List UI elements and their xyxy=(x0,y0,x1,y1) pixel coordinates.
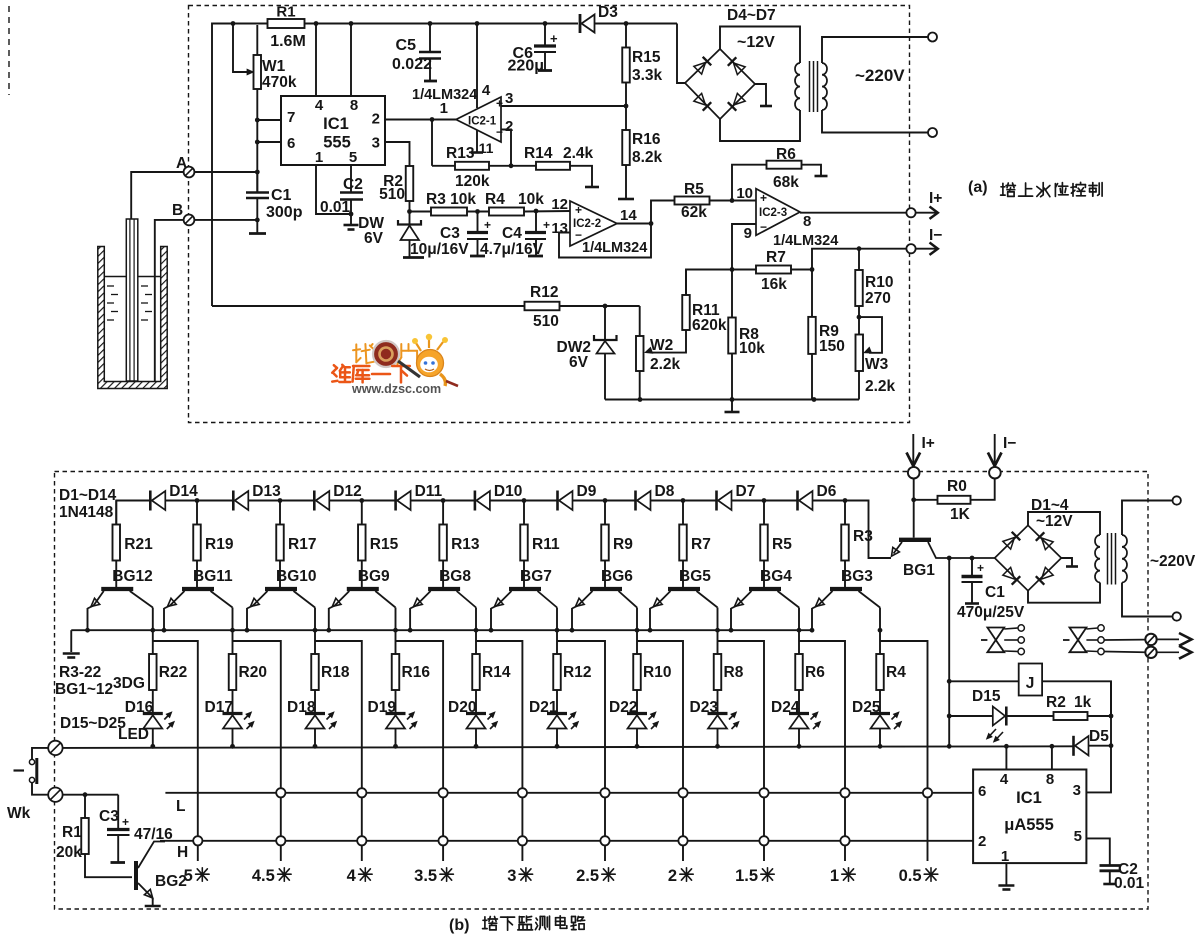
capacitor C5 0.022 xyxy=(392,24,441,82)
wire chain segment xyxy=(165,498,233,503)
svg-text:2.2k: 2.2k xyxy=(865,378,896,395)
resistor R13 xyxy=(439,501,480,588)
svg-text:5: 5 xyxy=(184,867,193,885)
resistor R21 xyxy=(113,501,154,588)
svg-text:10: 10 xyxy=(736,185,753,202)
svg-text:0.01: 0.01 xyxy=(1114,875,1145,892)
wire collector column BG7 xyxy=(555,628,560,654)
LED D23 xyxy=(690,699,740,746)
wire IC1b pin5 to C2 xyxy=(1086,838,1109,865)
resistor R2 1k (b) xyxy=(1006,694,1113,720)
svg-text:D17: D17 xyxy=(205,699,233,716)
svg-text:1.5: 1.5 xyxy=(735,867,758,885)
wire IC2-2 feedback loop xyxy=(559,224,651,258)
diode D9 xyxy=(558,483,597,511)
label (b) caption xyxy=(449,916,585,934)
svg-text:220μ: 220μ xyxy=(508,58,544,75)
LED D15 indicator xyxy=(947,688,1007,742)
ground at bottom rail (a) xyxy=(725,400,740,413)
svg-text:7: 7 xyxy=(287,109,295,126)
svg-text:H: H xyxy=(177,844,188,861)
resistor R3 10k (a) xyxy=(410,191,490,216)
transistor BG2 xyxy=(136,842,187,907)
op-amp IC2-2 xyxy=(551,196,647,256)
wire collector column BG5 xyxy=(715,628,720,654)
svg-text:8: 8 xyxy=(803,213,811,230)
LED D19 xyxy=(368,699,418,746)
resistor R0 1K xyxy=(911,478,994,523)
svg-text:3DG: 3DG xyxy=(113,675,145,692)
svg-text:R5: R5 xyxy=(772,536,792,553)
wire collector column BG6 xyxy=(635,628,640,654)
wire LED common line xyxy=(63,746,1074,748)
svg-text:R15: R15 xyxy=(632,49,661,66)
svg-text:4.5: 4.5 xyxy=(252,867,275,885)
node I- output terminal xyxy=(906,227,942,255)
svg-text:BG3: BG3 xyxy=(841,568,873,585)
wire probe branch BG5 xyxy=(718,641,765,861)
wire emitter to rail BG8 xyxy=(408,628,413,633)
wire chain segment xyxy=(411,498,475,503)
wire IC1b pin4 xyxy=(1005,746,1007,769)
svg-text:2: 2 xyxy=(668,867,677,885)
wire IC1 pin3 to R2 xyxy=(385,142,410,166)
transformer T2 (b) xyxy=(1095,501,1173,617)
wire emitter to rail BG9 xyxy=(326,628,331,633)
node H connector 1.5米 xyxy=(759,836,768,845)
svg-text:1N4148: 1N4148 xyxy=(59,504,114,521)
svg-text:~220V: ~220V xyxy=(1150,553,1196,570)
wire emitter to rail BG5 xyxy=(648,628,653,633)
resistor R14 2.4k xyxy=(511,145,599,187)
wire chain segment xyxy=(651,498,717,503)
capacitor C3 10u/16V (a) xyxy=(410,209,491,258)
svg-text:BG6: BG6 xyxy=(601,568,633,585)
svg-text:BG7: BG7 xyxy=(520,568,552,585)
bridge rectifier D1~4 (b) xyxy=(995,525,1062,590)
svg-text:R15: R15 xyxy=(370,536,399,553)
svg-text:270: 270 xyxy=(865,290,891,307)
diode D8 xyxy=(636,483,675,511)
svg-text:LED: LED xyxy=(118,726,149,743)
wire IC1 pin6 xyxy=(255,140,281,145)
LED D16 xyxy=(125,699,175,746)
wire collector column BG12 xyxy=(150,628,155,654)
svg-text:3: 3 xyxy=(372,135,380,152)
node H connector 5米 xyxy=(193,836,202,845)
wire emitter to rail BG7 xyxy=(489,628,494,633)
svg-text:0.022: 0.022 xyxy=(392,56,432,73)
wire collector column BG3 xyxy=(878,628,883,654)
op-amp IC2-1 xyxy=(440,82,514,156)
svg-text:+: + xyxy=(543,218,550,232)
svg-text:~12V: ~12V xyxy=(737,34,775,51)
wire IC2-1 output to R13 xyxy=(431,120,433,166)
relay J xyxy=(947,664,1111,717)
svg-text:1.6M: 1.6M xyxy=(270,33,306,50)
transistor BG1 xyxy=(892,478,995,579)
wire IC1 pin4 to rail xyxy=(315,24,317,97)
resistor R1 xyxy=(268,4,306,51)
svg-text:3: 3 xyxy=(507,867,516,885)
svg-text:62k: 62k xyxy=(681,204,707,221)
wire emitter to rail BG6 xyxy=(570,628,575,633)
capacitor C1 300p xyxy=(246,172,303,234)
transistor BG10 xyxy=(247,568,317,630)
svg-text:4: 4 xyxy=(347,867,357,885)
transistor BG7 xyxy=(491,568,557,630)
wire probe branch BG11 xyxy=(233,641,281,861)
svg-text:BG4: BG4 xyxy=(760,568,792,585)
wire emitter to rail BG4 xyxy=(729,628,734,633)
svg-text:BG1~12: BG1~12 xyxy=(55,681,113,698)
svg-text:+: + xyxy=(977,561,984,575)
label 3米 depth xyxy=(507,867,532,885)
svg-text:4: 4 xyxy=(315,97,324,114)
label 4.5米 depth xyxy=(252,867,291,885)
svg-text:4: 4 xyxy=(1000,771,1009,788)
svg-text:R1: R1 xyxy=(62,824,82,841)
node I- input arrow xyxy=(988,434,1016,479)
svg-text:4.7μ/16V: 4.7μ/16V xyxy=(480,241,544,258)
resistor R6 68k feedback xyxy=(732,146,828,201)
LED D22 xyxy=(609,699,659,746)
svg-text:(a): (a) xyxy=(968,179,988,196)
LED D20 xyxy=(448,699,498,746)
label 0.5米 depth xyxy=(899,867,938,885)
wire plug to AC pass-through xyxy=(1104,640,1145,653)
node B terminal xyxy=(172,202,194,225)
transistor BG3 xyxy=(812,568,880,630)
label 5米 depth xyxy=(184,867,209,885)
resistor R20 xyxy=(229,654,267,714)
svg-text:12: 12 xyxy=(551,196,568,213)
svg-text:D14: D14 xyxy=(169,483,198,500)
diode D13 xyxy=(233,483,281,511)
wire relay branch vertical xyxy=(1110,681,1112,745)
node dots on LED line xyxy=(150,744,1054,749)
resistor R11 620k xyxy=(645,270,727,354)
wire emitter to rail BG10 xyxy=(245,628,250,633)
svg-text:3: 3 xyxy=(505,90,513,107)
svg-text:16k: 16k xyxy=(761,276,787,293)
label 3.5米 depth xyxy=(414,867,453,885)
diode D7 xyxy=(717,483,756,511)
label D1~D14 1N4148 xyxy=(59,487,117,521)
resistor R4 xyxy=(876,654,906,714)
wire emitter to rail BG12 xyxy=(85,628,90,633)
resistor R2 510 xyxy=(379,166,413,203)
svg-text:D12: D12 xyxy=(333,483,361,500)
svg-text:R14: R14 xyxy=(482,664,511,681)
svg-text:D9: D9 xyxy=(577,483,597,500)
svg-text:D15~D25: D15~D25 xyxy=(60,715,126,732)
svg-text:2: 2 xyxy=(505,118,513,135)
svg-text:+: + xyxy=(575,203,582,217)
resistor R16 8.2k xyxy=(618,106,663,199)
svg-text:D25: D25 xyxy=(852,699,881,716)
svg-text:BG11: BG11 xyxy=(193,568,233,585)
resistor R17 xyxy=(276,501,316,588)
label 1/4LM324 for IC2-1 xyxy=(412,87,477,103)
svg-text:L: L xyxy=(176,798,185,815)
wire IC1 pin2 to IC2-1 output xyxy=(385,117,456,122)
diode D10 xyxy=(475,483,522,511)
wire R2 to zener and R3 xyxy=(407,201,412,224)
transistor BG4 xyxy=(731,568,799,630)
LED D25 xyxy=(852,699,902,746)
svg-text:IC2-3: IC2-3 xyxy=(759,207,787,219)
svg-text:C1: C1 xyxy=(985,584,1005,601)
node pass-through terminal upper xyxy=(1145,634,1156,645)
svg-text:1/4LM324: 1/4LM324 xyxy=(582,240,647,256)
svg-text:R19: R19 xyxy=(205,536,234,553)
node I+ output terminal xyxy=(906,190,942,219)
node H connector 2.5米 xyxy=(600,836,609,845)
svg-text:5: 5 xyxy=(349,149,357,166)
wire bridge top to transformer xyxy=(720,27,800,64)
wire probe branch BG7 xyxy=(557,641,605,861)
node A terminal xyxy=(176,155,194,177)
svg-text:R4: R4 xyxy=(485,191,505,208)
svg-text:R12: R12 xyxy=(563,664,591,681)
svg-text:0.01: 0.01 xyxy=(320,199,351,216)
svg-text:BG12: BG12 xyxy=(112,568,153,585)
svg-text:R7: R7 xyxy=(766,249,786,266)
ground at IC1 pin1/5 xyxy=(344,214,359,230)
svg-text:1: 1 xyxy=(830,867,839,885)
svg-text:R14: R14 xyxy=(524,145,553,162)
wire T2 to R1 and C3 xyxy=(63,792,119,829)
svg-text:10k: 10k xyxy=(739,340,765,357)
label 4米 depth xyxy=(347,867,372,885)
resistor R8 10k xyxy=(728,270,765,400)
resistor R3 xyxy=(841,501,873,588)
node AC terminal top (a) xyxy=(928,33,937,42)
node L connector 3.5米 xyxy=(439,788,448,797)
svg-text:D24: D24 xyxy=(771,699,800,716)
svg-text:1k: 1k xyxy=(1074,694,1092,711)
resistor R6 xyxy=(795,654,825,714)
svg-text:IC2-1: IC2-1 xyxy=(468,116,497,128)
node AC terminal top (b) xyxy=(1173,496,1181,504)
transformer T1 (a) xyxy=(795,37,928,133)
svg-text:Wk: Wk xyxy=(7,805,31,822)
wire H line xyxy=(160,841,973,861)
svg-text:D11: D11 xyxy=(415,483,443,500)
label R3-22 BG1~12 3DG xyxy=(55,664,145,698)
svg-text:6: 6 xyxy=(978,783,986,800)
wire collector column BG4 xyxy=(797,628,802,654)
svg-text:R12: R12 xyxy=(530,284,558,301)
svg-text:μA555: μA555 xyxy=(1004,816,1054,834)
label D1~4 xyxy=(1031,497,1069,514)
svg-text:D19: D19 xyxy=(368,699,397,716)
svg-text:2: 2 xyxy=(978,833,986,850)
svg-text:www.dzsc.com: www.dzsc.com xyxy=(351,382,441,396)
svg-text:300p: 300p xyxy=(266,204,303,221)
capacitor C2 0.01 (b) xyxy=(1100,861,1145,892)
resistor R14 xyxy=(472,654,511,714)
svg-text:D18: D18 xyxy=(287,699,316,716)
svg-text:3: 3 xyxy=(1073,782,1081,799)
svg-text:8: 8 xyxy=(350,97,358,114)
svg-text:R1: R1 xyxy=(276,4,295,21)
node H connector 1米 xyxy=(840,836,849,845)
wire VCC top rail xyxy=(212,24,677,307)
resistor R5 62k xyxy=(651,181,756,224)
switch contact xyxy=(14,748,49,795)
svg-text:R6: R6 xyxy=(776,146,796,163)
transistor BG12 xyxy=(88,568,153,630)
wire collector column BG11 xyxy=(230,628,235,654)
svg-text:1: 1 xyxy=(315,149,323,166)
wire IC2-1 pin3 to R15/R16 node xyxy=(501,104,628,109)
bridge rectifier D4~D7 xyxy=(685,49,755,119)
svg-text:+: + xyxy=(550,31,558,46)
svg-text:D22: D22 xyxy=(609,699,637,716)
wire collector column BG9 xyxy=(393,628,398,654)
wire probe branch BG9 xyxy=(396,641,444,861)
wire chain segment xyxy=(248,498,314,503)
capacitor C4 4.7u/16V (a) xyxy=(480,209,550,258)
resistor R22 xyxy=(149,654,187,714)
label ~220V (b) xyxy=(1150,553,1196,570)
op-amp IC1 555 timer xyxy=(281,96,385,166)
resistor R10 xyxy=(633,654,671,714)
LED D17 xyxy=(205,699,255,746)
svg-text:~220V: ~220V xyxy=(855,66,905,85)
node H connector 3米 xyxy=(518,836,527,845)
svg-text:IC1: IC1 xyxy=(1016,789,1042,807)
wire probe branch BG3 xyxy=(880,641,928,861)
ground at bridge right xyxy=(755,84,772,106)
svg-text:R3: R3 xyxy=(853,528,873,545)
svg-text:D20: D20 xyxy=(448,699,476,716)
svg-text:I−: I− xyxy=(929,227,942,244)
svg-text:R22: R22 xyxy=(159,664,187,681)
svg-text:C5: C5 xyxy=(396,37,417,54)
resistor R15 3.3k xyxy=(622,24,662,107)
svg-text:D10: D10 xyxy=(494,483,522,500)
label ~12V xyxy=(737,34,775,51)
label 1米 depth xyxy=(830,867,855,885)
svg-text:R13: R13 xyxy=(451,536,480,553)
svg-text:2: 2 xyxy=(372,111,380,128)
svg-text:BG5: BG5 xyxy=(679,568,711,585)
resistor R16 xyxy=(392,654,431,714)
wire chain segment xyxy=(573,498,636,503)
svg-text:BG9: BG9 xyxy=(358,568,390,585)
svg-text:R16: R16 xyxy=(632,131,661,148)
resistor R1 20k (b) xyxy=(56,795,132,878)
svg-text:W2: W2 xyxy=(650,337,673,354)
wire probe branch BG4 xyxy=(799,641,845,861)
wire L line xyxy=(165,793,973,815)
svg-text:1K: 1K xyxy=(950,506,971,523)
node I+ input arrow xyxy=(907,434,935,479)
resistor R5 xyxy=(760,501,792,588)
ground IC2-1 pin11 xyxy=(471,130,483,153)
wire IC2-3 pin9 xyxy=(730,224,756,272)
svg-text:6: 6 xyxy=(287,135,295,152)
node L connector 2.5米 xyxy=(600,788,609,797)
svg-text:620k: 620k xyxy=(692,317,727,334)
svg-text:6V: 6V xyxy=(569,354,589,371)
node H connector 4米 xyxy=(357,836,366,845)
resistor R9 150 xyxy=(808,267,845,399)
wire IC2-2 output xyxy=(617,221,653,226)
wire IC2-1 pin4 power xyxy=(476,24,478,109)
wire probe branch BG12 xyxy=(153,641,198,861)
svg-text:120k: 120k xyxy=(455,173,490,190)
svg-text:R20: R20 xyxy=(239,664,267,681)
svg-text:5: 5 xyxy=(1074,828,1082,845)
svg-text:14: 14 xyxy=(620,207,637,224)
node L connector 3米 xyxy=(518,788,527,797)
svg-text:510: 510 xyxy=(379,186,405,203)
svg-text:470μ/25V: 470μ/25V xyxy=(957,604,1025,621)
svg-text:R21: R21 xyxy=(124,536,153,553)
svg-text:W1: W1 xyxy=(262,58,286,75)
resistor R7 xyxy=(679,501,711,588)
svg-text:R10: R10 xyxy=(865,274,893,291)
svg-text:+: + xyxy=(760,191,767,205)
svg-text:−: − xyxy=(496,125,503,139)
svg-text:R10: R10 xyxy=(643,664,671,681)
wire collector column BG8 xyxy=(474,628,479,654)
ground at rail left end xyxy=(63,630,80,657)
svg-text:10k: 10k xyxy=(518,191,544,208)
node L connector 2米 xyxy=(678,788,687,797)
svg-text:+: + xyxy=(496,97,503,111)
section (b) dashed border xyxy=(55,472,1149,910)
svg-text:R17: R17 xyxy=(288,536,316,553)
svg-text:D1~4: D1~4 xyxy=(1031,497,1069,514)
svg-text:BG8: BG8 xyxy=(439,568,471,585)
resistor R15 xyxy=(358,501,399,588)
diode D11 xyxy=(396,483,443,511)
svg-text:R18: R18 xyxy=(321,664,350,681)
LED D21 xyxy=(529,699,579,746)
svg-text:I+: I+ xyxy=(929,190,942,207)
wire IC1 pin8 to rail xyxy=(350,24,352,97)
diode D5 xyxy=(1074,728,1114,756)
resistor R18 xyxy=(311,654,350,714)
svg-text:R5: R5 xyxy=(684,181,704,198)
node BG1 collector junction xyxy=(947,556,975,561)
svg-text:R0: R0 xyxy=(947,478,967,495)
resistor R19 xyxy=(193,501,234,588)
wire probe branch BG6 xyxy=(637,641,683,861)
wire IC1 pin1 xyxy=(316,165,353,216)
svg-text:470k: 470k xyxy=(262,74,297,91)
diode D6 xyxy=(798,483,837,511)
svg-text:2.4k: 2.4k xyxy=(563,145,594,162)
svg-text:D8: D8 xyxy=(655,483,675,500)
svg-text:D23: D23 xyxy=(690,699,719,716)
svg-text:C3: C3 xyxy=(99,808,119,825)
svg-text:4: 4 xyxy=(482,82,491,99)
diode D14 xyxy=(150,483,198,511)
zener diode DW2 6V xyxy=(557,306,617,400)
node terminal T2 Wk xyxy=(7,788,63,823)
wire collector column BG10 xyxy=(313,628,318,654)
potentiometer W2 2.2k xyxy=(636,306,681,400)
transistor BG9 xyxy=(329,568,396,630)
svg-text:~12V: ~12V xyxy=(1036,513,1073,530)
svg-text:C1: C1 xyxy=(271,187,292,204)
